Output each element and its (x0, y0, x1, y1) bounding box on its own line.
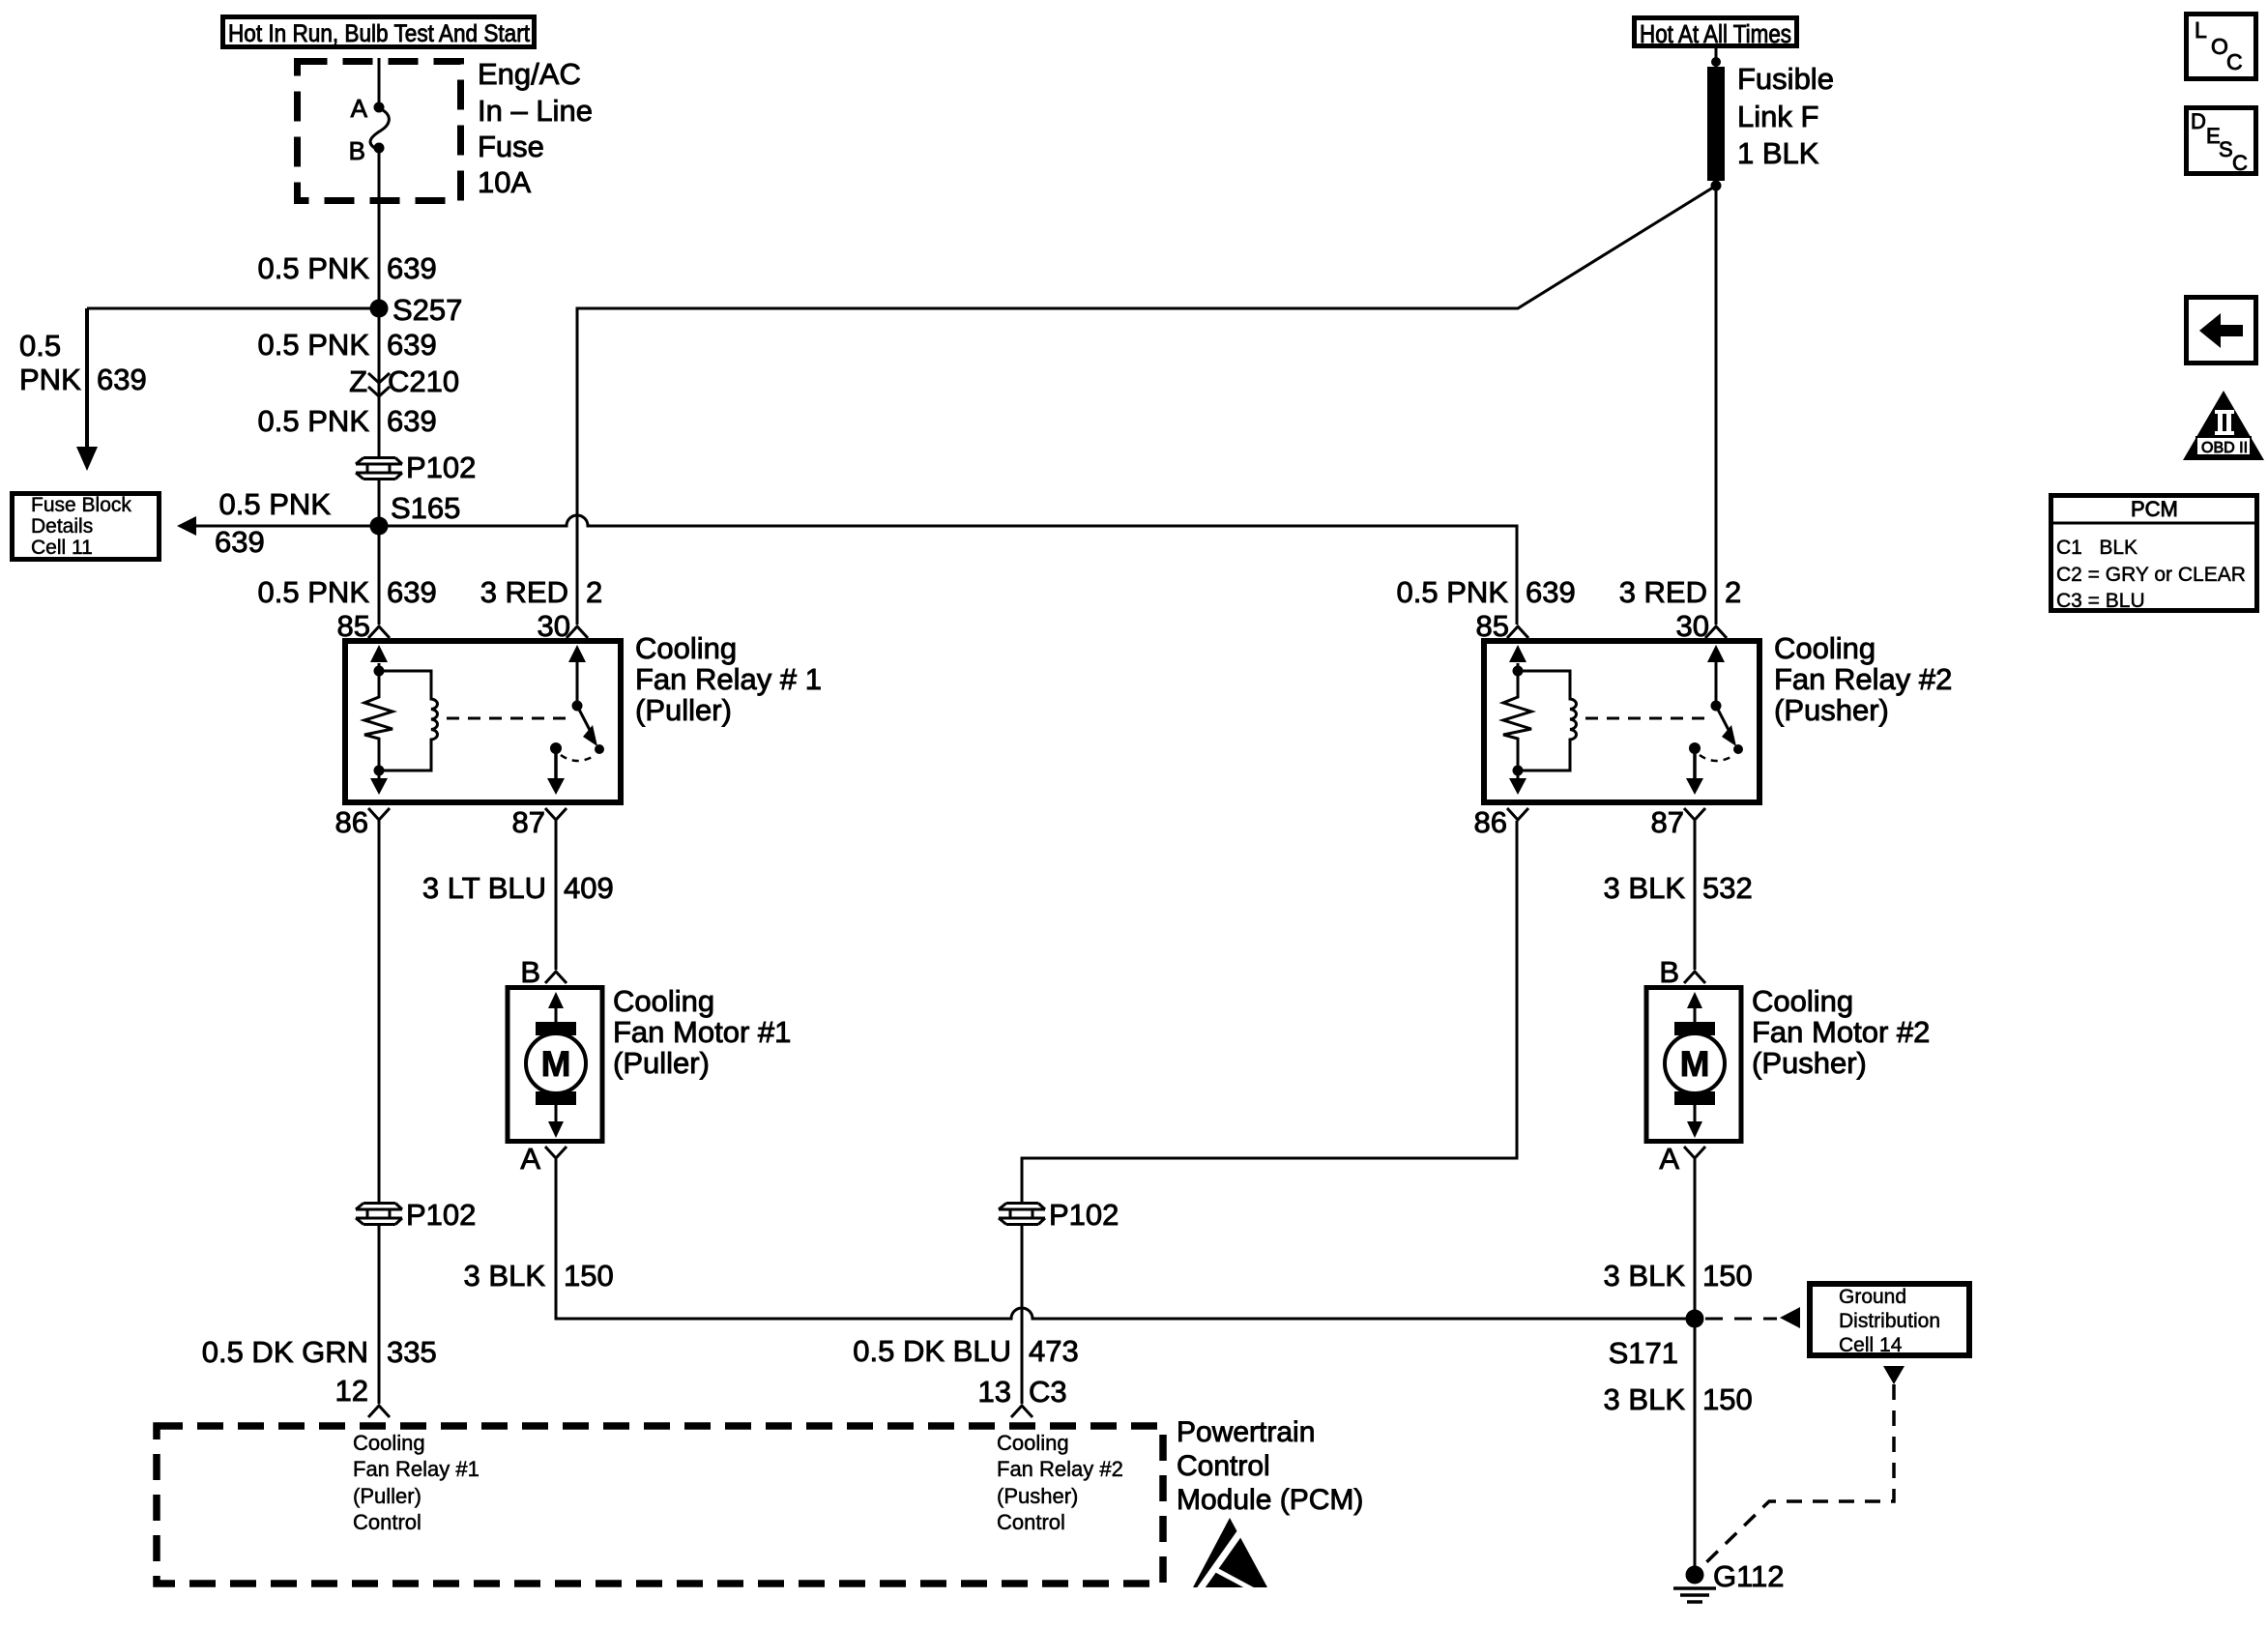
svg-text:639: 639 (1526, 575, 1576, 609)
svg-text:Fan Relay #2: Fan Relay #2 (1774, 662, 1952, 696)
svg-text:3 LT BLU: 3 LT BLU (422, 871, 546, 905)
svg-text:Cell 11: Cell 11 (31, 537, 93, 559)
svg-text:2: 2 (586, 575, 602, 609)
svg-text:C: C (2226, 49, 2243, 74)
svg-text:1 BLK: 1 BLK (1737, 136, 1819, 170)
svg-text:335: 335 (387, 1335, 437, 1369)
svg-text:C210: C210 (388, 364, 459, 398)
svg-text:M: M (541, 1044, 571, 1084)
svg-text:C1 BLK: C1 BLK (2056, 537, 2137, 559)
svg-text:(Puller): (Puller) (635, 693, 732, 727)
svg-text:PNK: PNK (19, 363, 81, 396)
svg-text:Fan Relay # 1: Fan Relay # 1 (635, 662, 822, 696)
svg-text:473: 473 (1029, 1334, 1079, 1368)
svg-text:S165: S165 (391, 491, 460, 525)
svg-text:0.5 PNK: 0.5 PNK (258, 575, 370, 609)
svg-text:Fuse Block: Fuse Block (31, 494, 131, 516)
svg-text:Control: Control (353, 1510, 422, 1534)
svg-text:Fuse: Fuse (478, 130, 544, 163)
svg-text:409: 409 (564, 871, 614, 905)
svg-text:150: 150 (1702, 1382, 1753, 1416)
svg-text:639: 639 (387, 575, 437, 609)
svg-text:(Pusher): (Pusher) (1752, 1046, 1867, 1080)
svg-text:3 BLK: 3 BLK (1604, 871, 1686, 905)
svg-text:C3 = BLU: C3 = BLU (2056, 590, 2145, 612)
svg-text:Hot At All Times: Hot At All Times (1640, 21, 1791, 48)
svg-text:Cooling: Cooling (613, 984, 714, 1018)
svg-text:Eng/AC: Eng/AC (478, 57, 581, 91)
svg-text:In – Line: In – Line (478, 94, 593, 128)
svg-text:532: 532 (1702, 871, 1753, 905)
svg-text:86: 86 (335, 805, 368, 839)
svg-text:(Pusher): (Pusher) (997, 1484, 1078, 1508)
svg-text:30: 30 (1676, 609, 1709, 643)
svg-text:0.5 PNK: 0.5 PNK (1397, 575, 1509, 609)
svg-text:87: 87 (1651, 805, 1684, 839)
svg-text:PCM: PCM (2131, 497, 2178, 521)
svg-text:Module (PCM): Module (PCM) (1177, 1484, 1363, 1516)
svg-text:Cooling: Cooling (353, 1431, 425, 1455)
svg-text:Fan Relay #2: Fan Relay #2 (997, 1457, 1123, 1481)
svg-text:85: 85 (337, 609, 370, 643)
svg-text:B: B (1659, 955, 1679, 989)
svg-text:Details: Details (31, 515, 93, 538)
svg-text:30: 30 (538, 609, 570, 643)
svg-text:A: A (351, 94, 368, 123)
svg-text:C: C (2232, 151, 2248, 175)
svg-text:150: 150 (1702, 1259, 1753, 1293)
svg-text:85: 85 (1476, 609, 1509, 643)
svg-text:86: 86 (1474, 805, 1507, 839)
svg-text:P102: P102 (406, 451, 476, 484)
svg-text:13: 13 (978, 1375, 1011, 1409)
svg-text:2: 2 (1725, 575, 1741, 609)
svg-text:Control: Control (997, 1510, 1065, 1534)
svg-text:639: 639 (215, 525, 265, 559)
svg-text:87: 87 (512, 805, 545, 839)
svg-text:639: 639 (97, 363, 147, 396)
svg-text:639: 639 (387, 328, 437, 362)
svg-text:Fan Motor #2: Fan Motor #2 (1752, 1015, 1930, 1049)
svg-text:0.5: 0.5 (19, 329, 61, 363)
svg-text:C2 = GRY or CLEAR: C2 = GRY or CLEAR (2056, 564, 2246, 586)
svg-text:Powertrain: Powertrain (1177, 1416, 1315, 1448)
svg-text:639: 639 (387, 251, 437, 285)
svg-text:(Puller): (Puller) (353, 1484, 422, 1508)
svg-text:B: B (520, 955, 540, 989)
svg-text:S: S (2219, 137, 2233, 161)
svg-text:Cooling: Cooling (1752, 984, 1853, 1018)
svg-text:Ground: Ground (1839, 1286, 1906, 1308)
svg-text:3 RED: 3 RED (480, 575, 568, 609)
svg-text:Fusible: Fusible (1737, 62, 1834, 96)
svg-text:P102: P102 (1049, 1198, 1119, 1232)
svg-text:S171: S171 (1609, 1336, 1678, 1370)
svg-text:P102: P102 (406, 1198, 476, 1232)
svg-text:Fan Motor #1: Fan Motor #1 (613, 1015, 791, 1049)
svg-text:A: A (520, 1142, 540, 1176)
svg-text:639: 639 (387, 404, 437, 438)
svg-text:0.5 PNK: 0.5 PNK (258, 328, 370, 362)
svg-text:Cooling: Cooling (997, 1431, 1069, 1455)
svg-text:Control: Control (1177, 1450, 1270, 1482)
svg-text:3 RED: 3 RED (1619, 575, 1707, 609)
svg-text:A: A (1659, 1142, 1679, 1176)
svg-text:3 BLK: 3 BLK (1604, 1259, 1686, 1293)
svg-text:OBD II: OBD II (2201, 440, 2248, 456)
svg-text:Z: Z (349, 364, 367, 398)
svg-text:150: 150 (564, 1259, 614, 1293)
svg-text:0.5 PNK: 0.5 PNK (219, 487, 332, 521)
svg-text:Link F: Link F (1737, 100, 1818, 133)
svg-text:(Pusher): (Pusher) (1774, 693, 1889, 727)
svg-text:B: B (349, 136, 365, 165)
svg-text:Hot In Run, Bulb Test And Star: Hot In Run, Bulb Test And Start (228, 20, 530, 47)
svg-text:Cell 14: Cell 14 (1839, 1334, 1903, 1356)
svg-text:12: 12 (335, 1374, 368, 1408)
svg-text:10A: 10A (478, 165, 531, 199)
svg-text:3 BLK: 3 BLK (464, 1259, 546, 1293)
svg-text:Cooling: Cooling (635, 631, 737, 665)
svg-text:G112: G112 (1713, 1559, 1785, 1593)
svg-text:S257: S257 (393, 293, 462, 327)
svg-text:0.5 DK GRN: 0.5 DK GRN (202, 1335, 368, 1369)
svg-text:Fan Relay #1: Fan Relay #1 (353, 1457, 480, 1481)
svg-text:Cooling: Cooling (1774, 631, 1875, 665)
svg-text:0.5 PNK: 0.5 PNK (258, 404, 370, 438)
svg-text:0.5 PNK: 0.5 PNK (258, 251, 370, 285)
svg-text:0.5 DK BLU: 0.5 DK BLU (853, 1334, 1011, 1368)
svg-text:L: L (2195, 17, 2207, 43)
svg-text:C3: C3 (1029, 1375, 1067, 1409)
svg-text:3 BLK: 3 BLK (1604, 1382, 1686, 1416)
svg-text:Distribution: Distribution (1839, 1310, 1940, 1332)
svg-text:(Puller): (Puller) (613, 1046, 710, 1080)
svg-text:D: D (2191, 109, 2206, 133)
